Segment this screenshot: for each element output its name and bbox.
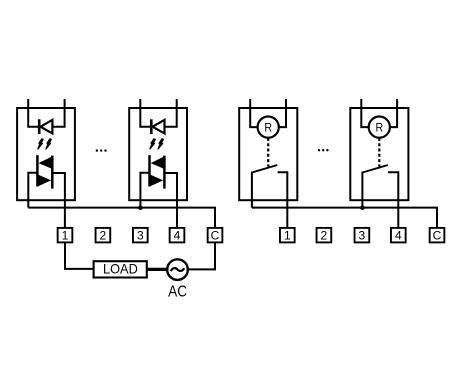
- wire: input lead B (top right) of U2: [176, 99, 178, 128]
- relay coil K1 circle: [258, 117, 279, 138]
- terminal C box: [208, 228, 223, 243]
- wire: LED branch of U2: [140, 126, 176, 128]
- wire: triac U1 left terminal to common bus: [28, 173, 37, 208]
- relay module K1 outline box: [239, 108, 297, 200]
- wire: switch fixed contact of K1 down to terminal: [278, 172, 288, 228]
- svg-text:AC: AC: [168, 284, 187, 301]
- svg-text:R: R: [375, 122, 383, 134]
- wire: switch pole of K1 down to common bus: [251, 172, 253, 208]
- photon emission arrow 2 of U1: [46, 139, 51, 149]
- wire: input lead B (top right) of U1: [64, 99, 66, 128]
- ellipsis between U1 and U2: [96, 149, 107, 151]
- svg-text:3: 3: [137, 229, 144, 243]
- terminal 1 box: [280, 228, 295, 243]
- svg-text:R: R: [264, 122, 272, 134]
- svg-text:2: 2: [321, 229, 328, 243]
- wire: right common bus to terminal C: [252, 208, 437, 229]
- svg-text:4: 4: [395, 229, 402, 243]
- node: junction dot on right bus: [360, 206, 365, 211]
- wire: coil lead (top right) of K1: [278, 99, 286, 127]
- svg-text:3: 3: [359, 229, 366, 243]
- wire: input lead A (top left) of U2: [139, 99, 141, 128]
- triac Q2 lower triangle: [149, 174, 163, 186]
- photon emission arrow 1 of U1: [38, 139, 43, 149]
- triac Q1 lower triangle: [37, 174, 51, 186]
- wire: coil lead (top right) of K2: [389, 99, 397, 127]
- terminal C box: [430, 228, 445, 243]
- terminal 4 box: [391, 228, 406, 243]
- triac Q1 left bar: [36, 155, 39, 186]
- SSR module U2 outline box: [129, 108, 187, 200]
- wire: coil lead (top left) of K1: [250, 99, 259, 127]
- SSR module U1 outline box: [17, 108, 75, 200]
- triac Q1 upper triangle: [39, 156, 53, 169]
- LED D1 triangle: [41, 120, 53, 134]
- LED D2 cathode bar: [150, 119, 153, 134]
- photon emission arrow 2 of U2: [158, 139, 163, 149]
- triac Q1 right bar: [51, 156, 54, 189]
- dashed actuation link of K1: [267, 138, 269, 167]
- triac Q2 upper triangle: [151, 156, 165, 169]
- wire: terminal 1 to LOAD: [65, 242, 94, 269]
- wire: switch pole of K2 down to common bus: [361, 172, 363, 208]
- wire: triac U1 output to terminal 1: [52, 173, 65, 228]
- svg-text:1: 1: [284, 229, 291, 243]
- dashed actuation link of K2: [378, 138, 380, 167]
- terminal 3 box: [355, 228, 370, 243]
- wire: triac U2 left terminal to common bus: [140, 173, 149, 208]
- wire: switch fixed contact of K2 down to terminal: [388, 172, 398, 228]
- svg-text:4: 4: [174, 229, 181, 243]
- svg-text:C: C: [433, 229, 442, 243]
- svg-text:1: 1: [62, 229, 69, 243]
- wire: input lead A (top left) of U1: [27, 99, 29, 128]
- switch contact blade of K1: [252, 165, 277, 173]
- relay coil K2 circle: [369, 117, 390, 138]
- wire: AC source to terminal C: [188, 242, 215, 269]
- relay module K2 outline box: [350, 108, 408, 200]
- triac Q2 left bar: [148, 155, 151, 186]
- wire: triac U2 output to terminal 4: [164, 173, 177, 228]
- terminal 3 box: [133, 228, 148, 243]
- wire: LOAD to AC source (thick): [147, 268, 168, 271]
- LOAD box: [94, 261, 147, 277]
- wire: coil lead (top left) of K2: [361, 99, 370, 127]
- AC source circle: [167, 259, 188, 280]
- switch contact blade of K2: [362, 165, 387, 173]
- svg-text:2: 2: [100, 229, 107, 243]
- triac Q2 right bar: [163, 156, 166, 189]
- terminal 2 box: [317, 228, 332, 243]
- wire: left common bus to terminal C: [28, 208, 215, 229]
- ellipsis between K1 and K2: [318, 149, 329, 151]
- node: junction dot on left bus: [138, 206, 143, 211]
- LED D1 cathode bar: [38, 119, 41, 134]
- svg-text:LOAD: LOAD: [103, 261, 138, 277]
- svg-text:C: C: [211, 229, 220, 243]
- terminal 2 box: [96, 228, 111, 243]
- terminal 4 box: [170, 228, 185, 243]
- terminal 1 box: [58, 228, 73, 243]
- AC source sine symbol: [171, 268, 184, 271]
- LED D2 triangle: [153, 120, 165, 134]
- wire: LED branch of U1: [28, 126, 64, 128]
- photon emission arrow 1 of U2: [150, 139, 155, 149]
